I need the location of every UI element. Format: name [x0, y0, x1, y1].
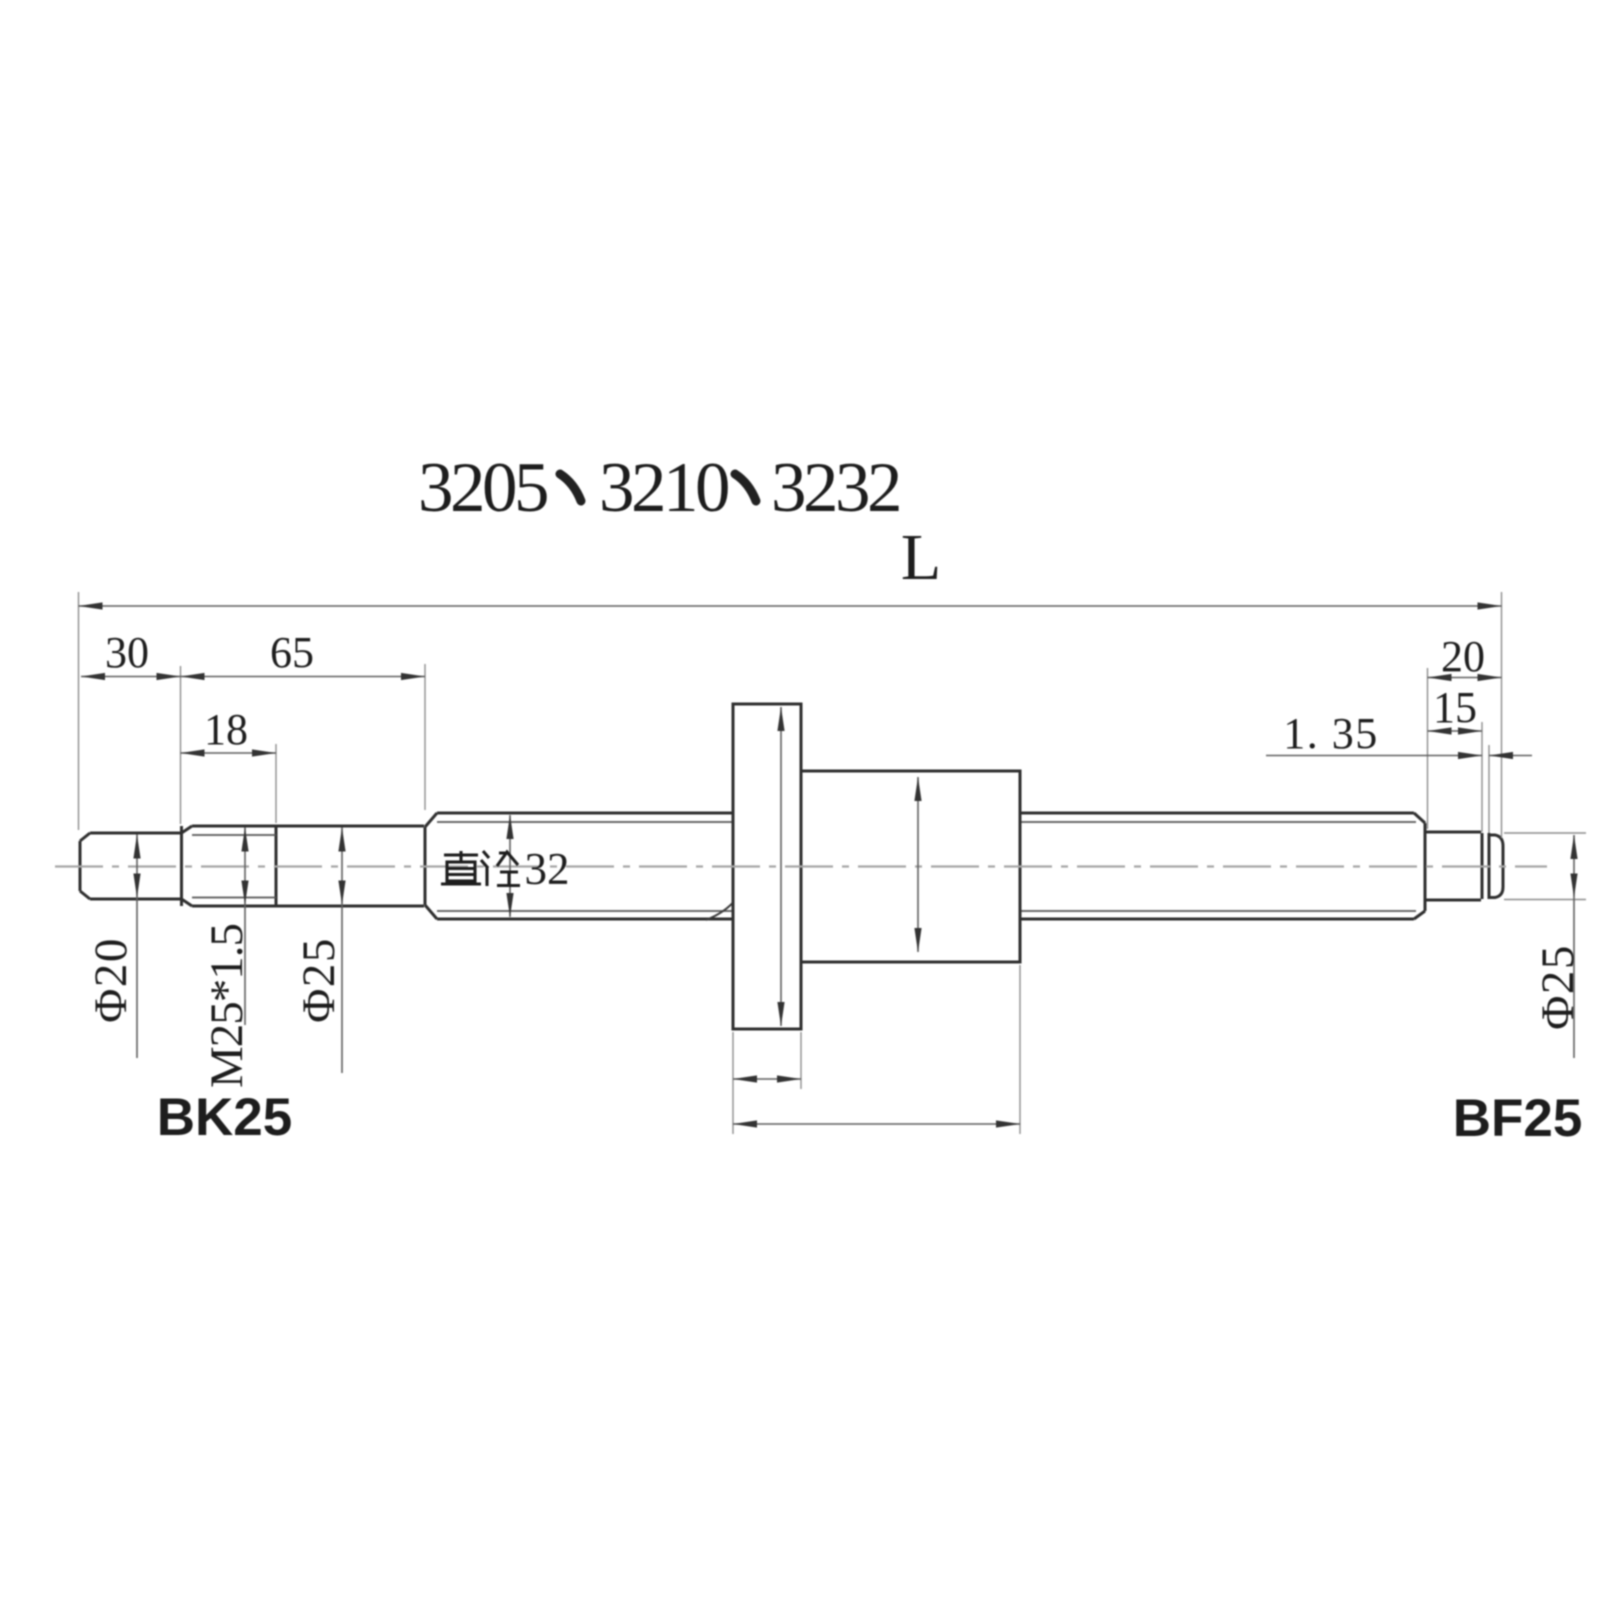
ext line groove left: [1481, 722, 1483, 832]
svg-text:3232: 3232: [771, 449, 899, 527]
ext line x425: [424, 664, 426, 810]
dimension dia32: [506, 815, 513, 917]
ball nut flange: [733, 704, 801, 1029]
phi25 plain section: [276, 826, 424, 906]
svg-text:65: 65: [270, 628, 314, 677]
ext line journal top: [1504, 832, 1586, 834]
ext line x180: [180, 666, 182, 824]
dimension 18: [181, 749, 277, 756]
right phi25 journal: [1425, 832, 1481, 900]
dimension nut OD: [914, 777, 921, 952]
svg-text:30: 30: [105, 628, 149, 677]
thread runout arc: [706, 899, 736, 920]
ext line flange left: [732, 1032, 734, 1134]
dimension phi25 left: [338, 828, 345, 1074]
thread root inner lines: [192, 835, 276, 898]
svg-text:32: 32: [525, 844, 570, 894]
dimension 65: [181, 673, 426, 680]
ext line groove right: [1488, 745, 1490, 833]
dimension flange width: [733, 1075, 801, 1082]
ext line x276: [275, 744, 277, 823]
svg-text:3210: 3210: [599, 449, 728, 527]
center line: [55, 865, 1547, 867]
svg-text:Φ25: Φ25: [293, 937, 345, 1023]
svg-text:Φ20: Φ20: [85, 937, 137, 1023]
ball screw body dia32 outline: [425, 813, 1425, 919]
svg-text:L: L: [901, 521, 941, 594]
svg-text:3205: 3205: [418, 449, 547, 527]
dimension nut length: [733, 1120, 1020, 1127]
svg-text:15: 15: [1433, 683, 1477, 732]
ext line nut right: [1019, 965, 1021, 1134]
screw thread root lines: [437, 822, 1416, 911]
hanzi jing (diameter): [481, 851, 520, 886]
dimension 30: [81, 673, 181, 680]
dimension L: [79, 602, 1502, 609]
shaft left stub phi20 journal: [80, 826, 182, 906]
dimension phi25 right: [1570, 835, 1577, 1058]
ext line journal bottom: [1504, 899, 1586, 901]
svg-text:Φ25: Φ25: [1532, 944, 1584, 1030]
svg-text:18: 18: [204, 705, 248, 754]
dimension 15: [1428, 727, 1483, 734]
svg-text:M25*1.5: M25*1.5: [201, 924, 253, 1088]
svg-text:BK25: BK25: [157, 1088, 293, 1147]
threaded section M25 outline: [182, 826, 277, 906]
ext line right end: [1501, 592, 1503, 838]
dimension flange OD: [777, 707, 784, 1026]
shaft tip: [1489, 835, 1503, 898]
ext line flange right: [800, 1032, 802, 1089]
dimension 1.35: [1266, 752, 1532, 759]
dimension M25: [241, 828, 248, 1026]
svg-text:20: 20: [1441, 632, 1485, 681]
ball nut body: [801, 771, 1020, 962]
ext line x1427: [1427, 668, 1429, 829]
circlip groove: [1482, 833, 1489, 899]
svg-text:BF25: BF25: [1453, 1089, 1583, 1148]
ext line left end: [78, 592, 80, 830]
dimension phi20: [133, 835, 140, 1059]
hanzi zhi (straight): [441, 851, 481, 884]
ideographic comma 1: [560, 474, 581, 501]
ideographic comma 2: [735, 474, 756, 501]
svg-text:1. 35: 1. 35: [1283, 709, 1379, 758]
dimension 20 right: [1428, 674, 1502, 681]
